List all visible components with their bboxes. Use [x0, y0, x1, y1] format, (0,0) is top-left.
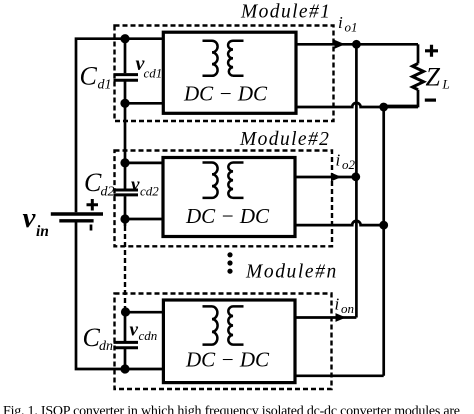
svg-text:v: v — [131, 175, 140, 196]
label i_on — [335, 295, 355, 317]
series bus segment C_d2 to dashed gap — [124, 196, 127, 226]
wire module-n top input — [125, 311, 164, 314]
svg-text:d1: d1 — [98, 78, 112, 93]
wire module2 positive output — [295, 176, 356, 179]
capacitor C_d2 — [114, 190, 139, 195]
wire battery positive up and right to series bus — [76, 39, 164, 213]
wire module1 positive output to load — [296, 43, 418, 46]
battery minus tick — [90, 225, 93, 231]
load plus sign — [425, 45, 438, 57]
label i_o2 — [336, 151, 356, 173]
arrow i_o2 — [331, 173, 342, 182]
label v_in — [23, 202, 49, 240]
wire module2 bottom input — [125, 218, 164, 221]
dashed enclosure Module#1 — [115, 26, 334, 122]
svg-text:cdn: cdn — [139, 328, 158, 343]
node load negative junction — [379, 103, 388, 112]
svg-text:cd2: cd2 — [140, 184, 159, 199]
transformer Tn — [203, 306, 244, 344]
svg-text:Module#2: Module#2 — [239, 129, 330, 150]
node C_d2 bottom junction — [120, 214, 129, 223]
node C_dn top junction — [121, 307, 130, 316]
wire battery negative down and right to series bus — [76, 223, 164, 370]
battery plus sign — [87, 199, 99, 211]
capacitor C_dn — [114, 342, 139, 347]
negative output bus — [382, 107, 385, 376]
node module2 output junction — [351, 172, 360, 181]
svg-text:C: C — [83, 323, 101, 352]
svg-text:i: i — [335, 295, 340, 314]
battery source negative plate — [59, 219, 93, 222]
wire module-n positive output — [295, 316, 356, 319]
series bus segment above C_dn — [124, 311, 127, 341]
label i_o1 — [338, 13, 358, 35]
series bus segment above C_d1 — [124, 39, 127, 73]
svg-text:L: L — [442, 77, 450, 92]
label v_cd1 — [136, 53, 163, 81]
svg-text:on: on — [341, 301, 354, 316]
node C_dn bottom junction — [120, 364, 129, 373]
label v_cd2 — [131, 175, 159, 199]
node C_d1 top junction — [120, 34, 129, 43]
wire module-n negative output — [295, 374, 384, 377]
ellipsis dots between modules — [227, 252, 232, 274]
converter box Un (DC-DC module n) — [163, 300, 295, 383]
wire module2 negative output with hop over bus — [295, 221, 384, 225]
dashed enclosure Module#2 — [115, 151, 333, 247]
load Z_L wiring and resistor — [384, 44, 424, 106]
label C_dn — [83, 323, 114, 354]
svg-text:Fig. 1. ISOP converter in whic: Fig. 1. ISOP converter in which high fre… — [3, 404, 460, 414]
series bus dashed continuation between Module#2 and Module#n — [124, 226, 126, 311]
dashed enclosure Module#n — [115, 294, 332, 390]
svg-text:dn: dn — [99, 339, 113, 354]
svg-text:o2: o2 — [342, 157, 356, 172]
node C_d1 bottom junction — [120, 99, 129, 108]
svg-text:v: v — [130, 320, 139, 341]
positive output bus — [355, 44, 358, 317]
battery source positive plate — [51, 212, 103, 216]
svg-text:cd1: cd1 — [144, 66, 163, 81]
svg-text:i: i — [336, 151, 341, 170]
wire module1 bottom input — [125, 102, 164, 105]
svg-text:DC − DC: DC − DC — [185, 348, 270, 372]
svg-text:Module#1: Module#1 — [240, 2, 331, 23]
svg-text:o1: o1 — [345, 20, 358, 35]
converter box U2 (DC-DC module 2) — [163, 158, 295, 237]
svg-text:DC − DC: DC − DC — [183, 82, 268, 106]
svg-text:C: C — [80, 62, 98, 91]
series bus segment C_d1 to C_d2 — [124, 82, 127, 189]
svg-text:C: C — [84, 168, 102, 197]
svg-text:DC − DC: DC − DC — [185, 204, 270, 228]
wire module1 negative output with hop over bus — [296, 103, 418, 107]
transformer T1 — [203, 41, 244, 76]
label C_d2 — [84, 168, 115, 200]
capacitor C_d1 — [114, 75, 139, 81]
label Z_L — [426, 63, 450, 92]
wire module2 top input — [125, 162, 164, 165]
svg-text:i: i — [338, 13, 343, 32]
series bus segment below C_dn — [124, 349, 127, 369]
svg-text:Z: Z — [426, 63, 441, 92]
transformer T2 — [203, 163, 244, 198]
node C_d2 top junction — [120, 158, 129, 167]
arrow i_on — [336, 313, 347, 322]
load minus sign — [425, 98, 436, 101]
svg-text:d2: d2 — [101, 185, 115, 200]
label v_cdn — [130, 320, 158, 344]
svg-text:in: in — [36, 223, 49, 240]
converter box U1 (DC-DC module 1) — [163, 32, 296, 113]
svg-text:v: v — [23, 202, 37, 234]
svg-text:Module#n: Module#n — [245, 262, 338, 283]
node module1 output junction — [352, 40, 361, 49]
arrow i_o1 — [335, 40, 346, 49]
label C_d1 — [80, 62, 112, 93]
node module2 negative junction — [379, 221, 388, 230]
